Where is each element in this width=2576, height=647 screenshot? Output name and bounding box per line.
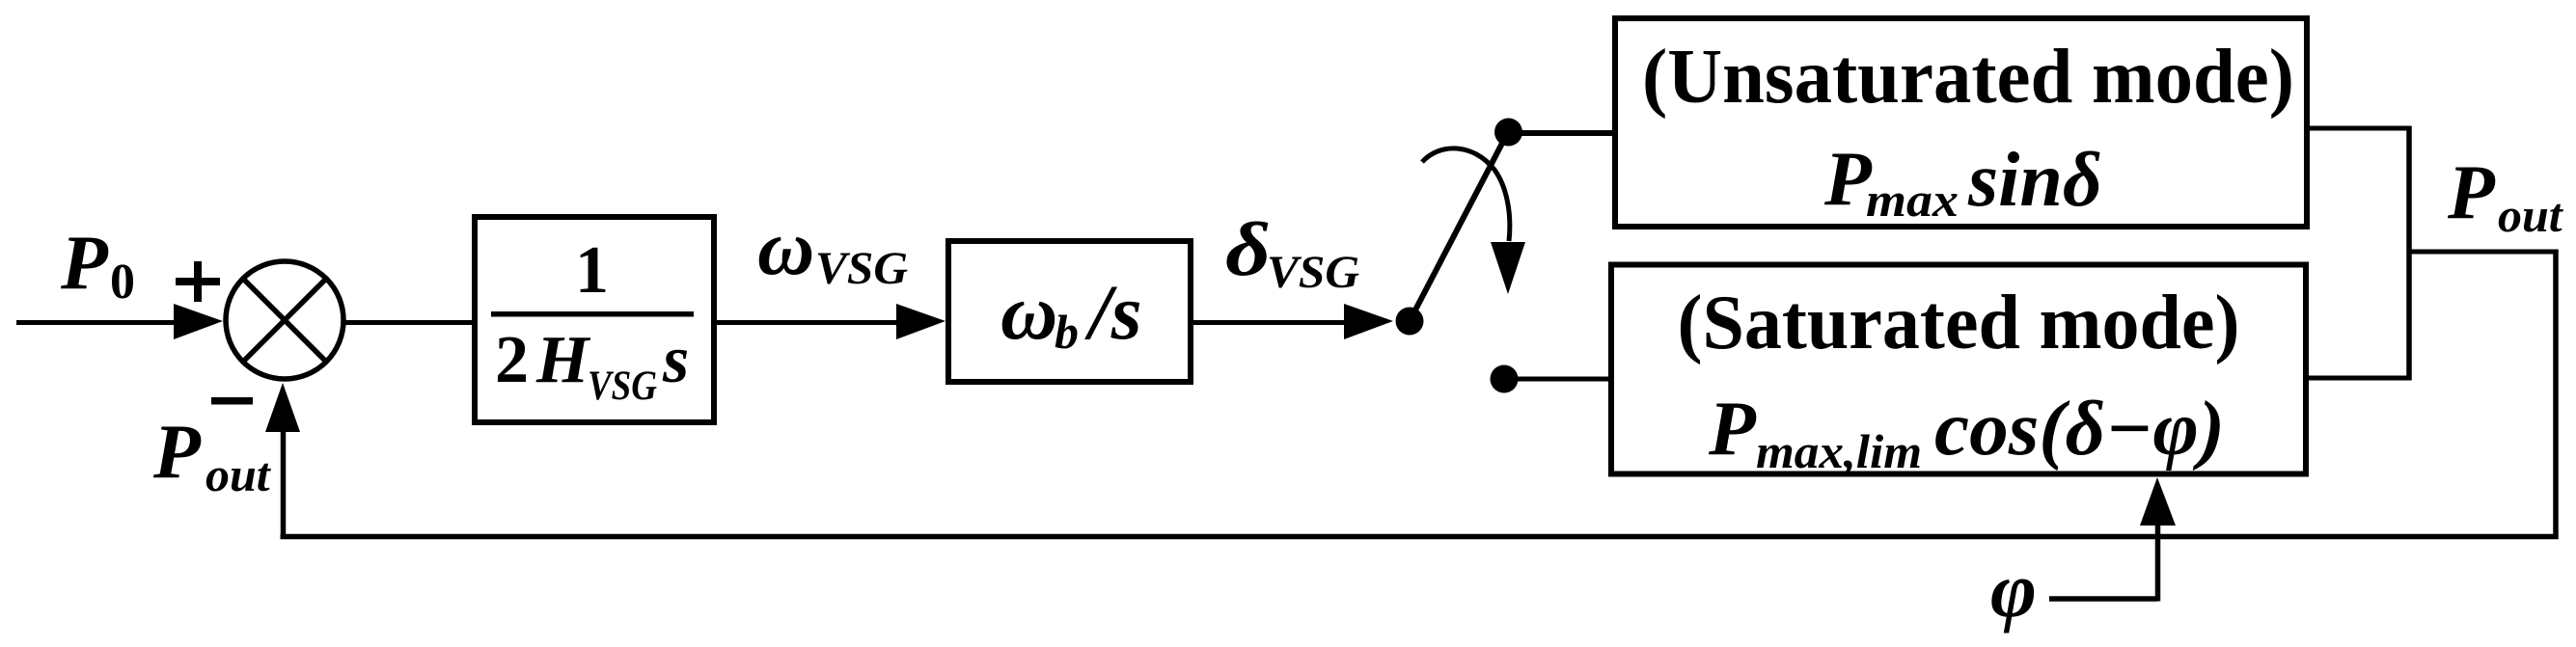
svg-text:0: 0: [110, 255, 135, 310]
svg-text:b: b: [1055, 305, 1079, 359]
switch motion arc: [1422, 148, 1510, 241]
wire: phi horizontal: [2049, 596, 2157, 602]
node delta_VSG label: [1225, 208, 1359, 298]
svg-text:P: P: [60, 221, 109, 306]
wire: unsaturated box to output bus: [2307, 126, 2411, 131]
minus sign: [211, 397, 253, 405]
svg-text:/s: /s: [1084, 268, 1142, 356]
node P0 label: [60, 221, 135, 310]
svg-text:δ: δ: [1225, 208, 1271, 292]
block saturated mode: [1611, 265, 2306, 479]
svg-text:out: out: [206, 447, 272, 501]
switch upper contact dot: [1494, 119, 1522, 147]
svg-text:1: 1: [575, 233, 609, 308]
wire: junction to block H: [344, 320, 473, 325]
node omega_VSG label: [757, 203, 908, 294]
node Pout label left: [152, 410, 272, 501]
block unsaturated mode: [1615, 18, 2307, 227]
block omega_b/s: [948, 241, 1191, 382]
plus sign: [176, 261, 220, 302]
wire: output line: [2409, 250, 2558, 255]
wire: feedback left vertical: [281, 428, 287, 538]
node Pout label right: [2447, 150, 2564, 242]
svg-text:P: P: [2447, 150, 2496, 235]
arrowhead into summing junction bottom: [265, 383, 300, 432]
switch common node dot: [1396, 308, 1424, 336]
wire: lower contact to saturated box: [1504, 377, 1611, 382]
arrowhead into saturated box: [2140, 477, 2176, 526]
svg-text:H: H: [535, 323, 591, 397]
wire: feedback bottom horizontal: [281, 534, 2559, 540]
wire: upper contact to unsaturated box: [1508, 130, 1615, 136]
block 1/(2H_VSG s): [475, 217, 714, 422]
wire: integrator to switch node: [1193, 320, 1346, 325]
svg-text:φ: φ: [1990, 546, 2037, 634]
svg-text:VSG: VSG: [815, 243, 908, 294]
summing junction: [226, 261, 343, 379]
arrowhead into summing junction: [174, 304, 223, 339]
wire: saturated box to output bus: [2306, 376, 2411, 381]
svg-text:(Saturated mode): (Saturated mode): [1678, 281, 2240, 365]
arrowhead into switch node: [1344, 304, 1393, 339]
wire: feedback right vertical: [2553, 250, 2559, 540]
svg-text:ω: ω: [757, 203, 814, 291]
arrowhead into integrator: [896, 304, 945, 339]
svg-text:(Unsaturated mode): (Unsaturated mode): [1642, 35, 2294, 120]
switch lower contact dot: [1491, 365, 1519, 393]
svg-text:VSG: VSG: [588, 364, 657, 409]
wire: phi vertical: [2155, 521, 2161, 602]
svg-text:2: 2: [495, 323, 529, 397]
svg-text:P: P: [152, 410, 202, 495]
svg-text:ω: ω: [1000, 268, 1057, 356]
svg-text:max: max: [1866, 173, 1959, 227]
wire: output bus vertical: [2406, 126, 2412, 381]
svg-text:cos(δ−φ): cos(δ−φ): [1934, 387, 2225, 472]
svg-text:P: P: [1708, 387, 1757, 472]
svg-text:VSG: VSG: [1267, 247, 1359, 298]
svg-text:out: out: [2498, 188, 2564, 242]
svg-text:max,lim: max,lim: [1756, 424, 1922, 478]
wire: block H to block integrator: [717, 320, 901, 325]
switch motion arrowhead: [1491, 242, 1525, 294]
wire: input P0 line: [16, 320, 179, 325]
svg-text:s: s: [662, 323, 689, 397]
svg-text:sinδ: sinδ: [1967, 138, 2102, 223]
switch lever: [1410, 132, 1508, 321]
